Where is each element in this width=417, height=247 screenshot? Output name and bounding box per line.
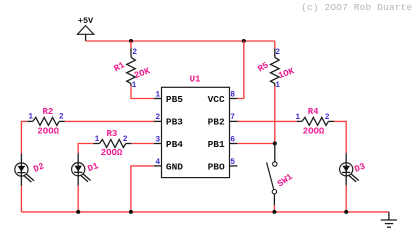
- label D1: [86, 161, 100, 174]
- svg-text:8: 8: [230, 91, 235, 100]
- pin number 1 of R5: [275, 81, 280, 90]
- svg-text:2OOΩ: 2OOΩ: [101, 148, 123, 158]
- resistor R3: [93, 140, 131, 148]
- pin number 6: [230, 136, 235, 145]
- pin number 1 of R3: [95, 135, 100, 144]
- value 20K: [133, 66, 152, 81]
- wire: D3 cathode to ground rail: [345, 186, 347, 212]
- svg-text:1: 1: [28, 113, 33, 122]
- value 200 ohm of R3: [101, 148, 123, 158]
- wire: +5V top rail: [86, 40, 275, 42]
- pin name PB0: [208, 161, 225, 172]
- svg-text:PB2: PB2: [208, 116, 225, 127]
- junction D1 / ground rail: [76, 210, 80, 214]
- svg-text:R2: R2: [42, 107, 53, 117]
- junction U1 GND / ground rail: [129, 210, 133, 214]
- svg-text:1: 1: [275, 81, 280, 90]
- pin number 2 of R4: [325, 113, 330, 122]
- wire: VCC pin 8 up to top rail: [237, 41, 243, 99]
- svg-text:PB5: PB5: [166, 94, 183, 105]
- pin 5 stub PB0: [230, 165, 238, 167]
- wire: R5 pin 1 down to PB1 node: [274, 86, 276, 143]
- svg-text:PB4: PB4: [166, 139, 183, 150]
- copyright text: [301, 2, 412, 13]
- svg-text:GND: GND: [166, 161, 183, 172]
- svg-text:2OOΩ: 2OOΩ: [37, 127, 59, 137]
- svg-text:2: 2: [123, 135, 128, 144]
- wire: D1 cathode to ground rail: [77, 186, 79, 212]
- +5V power symbol: [77, 16, 94, 41]
- pin name PB1: [208, 139, 225, 150]
- wire: U1 PB1 to SW1 node: [237, 143, 274, 145]
- pin 2 stub PB3: [154, 120, 162, 122]
- svg-text:(c) 2OO7 Rob Duarte: (c) 2OO7 Rob Duarte: [301, 2, 412, 13]
- pin number 2 of R2: [59, 113, 64, 122]
- pin number 8: [230, 91, 235, 100]
- label R3: [106, 129, 117, 139]
- value 200 ohm of R4: [303, 126, 325, 136]
- pin number 1 of R4: [295, 113, 300, 122]
- pin number 7: [230, 113, 235, 122]
- IC U1 body: [162, 87, 230, 177]
- svg-text:+5V: +5V: [78, 16, 94, 26]
- svg-text:2: 2: [132, 48, 137, 57]
- svg-text:5: 5: [230, 158, 235, 167]
- svg-text:R3: R3: [106, 129, 117, 139]
- pin name PB4: [166, 139, 183, 150]
- pin number 5: [230, 158, 235, 167]
- svg-text:3: 3: [155, 136, 160, 145]
- pin name PB5: [166, 94, 183, 105]
- resistor R5: [271, 49, 280, 87]
- wire: R1 pin 1 to U1 PB5: [131, 86, 154, 98]
- pin name PB2: [208, 116, 225, 127]
- label R4: [308, 107, 319, 117]
- svg-text:2: 2: [325, 113, 330, 122]
- svg-text:2OOΩ: 2OOΩ: [303, 126, 325, 136]
- label D2: [32, 161, 46, 174]
- pin 8 stub VCC: [230, 98, 238, 100]
- pin name GND: [166, 161, 183, 172]
- svg-text:2: 2: [155, 113, 160, 122]
- label R5: [256, 60, 270, 74]
- pin number 3: [155, 136, 160, 145]
- switch SW1: [267, 144, 277, 206]
- pin number 4: [155, 158, 160, 167]
- junction PB1 / R5 / SW1: [273, 142, 277, 146]
- pin number 2: [155, 113, 160, 122]
- wire: top rail down to R5 pin 2: [274, 41, 276, 49]
- svg-text:2: 2: [275, 48, 280, 57]
- pin number 2 of R5: [275, 48, 280, 57]
- pin number 1 of R2: [28, 113, 33, 122]
- wire: U1 PB2 to R4 pin 1: [237, 120, 296, 122]
- wire: top rail to R1 pin 2: [130, 41, 132, 49]
- svg-text:PB1: PB1: [208, 139, 225, 150]
- resistor R1: [127, 49, 136, 87]
- svg-text:R4: R4: [308, 107, 319, 117]
- LED D3: [340, 154, 359, 186]
- svg-text:7: 7: [230, 113, 235, 122]
- value 200 ohm of R2: [37, 127, 59, 137]
- pin name VCC: [208, 94, 225, 105]
- label R2: [42, 107, 53, 117]
- label SW1: [276, 172, 295, 190]
- value 10K: [277, 66, 296, 81]
- junction D3 / ground rail: [344, 210, 348, 214]
- svg-text:1: 1: [95, 135, 100, 144]
- svg-text:4: 4: [155, 158, 160, 167]
- svg-text:VCC: VCC: [208, 94, 225, 105]
- LED D2: [15, 154, 34, 186]
- svg-text:1: 1: [295, 113, 300, 122]
- resistor R2: [27, 117, 65, 125]
- pin 7 stub PB2: [230, 120, 238, 122]
- junction at R1 / top rail: [129, 39, 133, 43]
- wire: SW1 to ground rail: [273, 205, 275, 212]
- svg-text:1: 1: [132, 81, 137, 90]
- wire: R4 pin 2 to D3 anode: [334, 121, 346, 153]
- wire: R3 pin 2 to U1 PB4: [131, 143, 154, 145]
- pin name PB3: [166, 116, 183, 127]
- svg-text:PBO: PBO: [208, 161, 225, 172]
- pin 6 stub PB1: [230, 143, 238, 145]
- pin 4 stub GND: [154, 165, 162, 167]
- label U1: [190, 75, 201, 85]
- ground symbol: [381, 212, 397, 227]
- pin number 1: [155, 91, 160, 100]
- svg-text:2: 2: [59, 113, 64, 122]
- label R1: [112, 60, 127, 74]
- label D3: [353, 162, 367, 175]
- resistor R4: [297, 117, 334, 125]
- wire: bottom ground rail: [21, 211, 389, 213]
- svg-text:PB3: PB3: [166, 116, 183, 127]
- svg-text:1: 1: [155, 91, 160, 100]
- pin number 2 of R1: [132, 48, 137, 57]
- junction SW1 / ground rail: [272, 210, 276, 214]
- LED D1: [72, 154, 91, 186]
- wire: R2 pin 1 to D2 anode: [21, 121, 27, 153]
- junction at VCC branch / top rail: [242, 39, 246, 43]
- pin number 2 of R3: [123, 135, 128, 144]
- svg-text:U1: U1: [190, 75, 201, 85]
- wire: R3 pin 1 to D1 anode: [78, 144, 93, 154]
- svg-text:6: 6: [230, 136, 235, 145]
- pin 3 stub PB4: [154, 143, 162, 145]
- wire: R2 pin 2 to U1 PB3: [65, 120, 154, 122]
- pin number 1 of R1: [132, 81, 137, 90]
- pin 1 stub PB5: [154, 98, 162, 100]
- wire: D2 cathode to ground rail: [20, 186, 22, 212]
- wire: U1 GND pin to ground rail: [131, 166, 154, 212]
